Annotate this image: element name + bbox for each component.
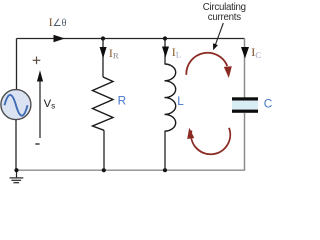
svg-text:L: L <box>177 94 184 108</box>
svg-text:Vs: Vs <box>44 98 56 111</box>
node: bottom source junction <box>14 168 18 172</box>
wire bottom horizontal <box>17 169 246 171</box>
wire top horizontal <box>17 38 245 40</box>
wire right vertical lower <box>244 113 246 170</box>
circulating current arc bottom <box>187 128 230 155</box>
current arrow IL <box>162 47 169 58</box>
plus polarity mark <box>33 57 41 65</box>
current arrow I on top wire <box>54 35 65 42</box>
svg-text:R: R <box>118 94 127 108</box>
wire from source bottom <box>15 120 17 170</box>
resistor R <box>93 77 114 130</box>
current arrow IR <box>100 47 107 59</box>
wire inductor top lead <box>164 39 166 65</box>
wire right vertical upper <box>244 39 246 98</box>
minus polarity mark <box>35 143 39 145</box>
wire resistor top lead <box>102 39 104 78</box>
Vs reference arrow <box>37 70 43 138</box>
node: bottom resistor junction <box>102 168 106 172</box>
wire left vertical <box>16 39 18 91</box>
current arrow IC <box>241 47 249 59</box>
circulating current arc top <box>186 53 232 78</box>
ground <box>10 170 24 183</box>
wire inductor bottom lead <box>164 131 166 170</box>
capacitor C <box>232 97 258 112</box>
svg-text:C: C <box>264 96 273 110</box>
wire resistor bottom lead <box>103 130 105 170</box>
inductor L <box>165 64 176 131</box>
svg-text:currents: currents <box>208 12 241 23</box>
svg-text:I∠θ: I∠θ <box>49 17 67 29</box>
node: top resistor junction <box>101 36 105 40</box>
node: bottom inductor junction <box>163 168 167 172</box>
pointer line from label <box>213 23 223 50</box>
ac source Vs <box>1 90 31 120</box>
node: top inductor junction <box>163 36 167 40</box>
